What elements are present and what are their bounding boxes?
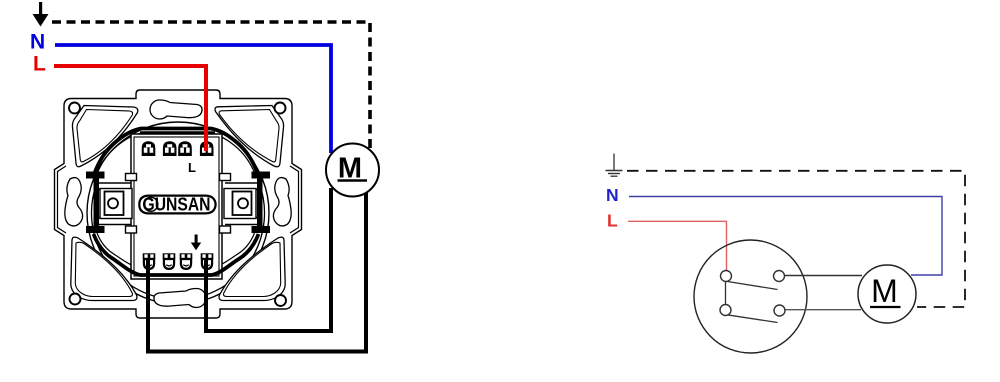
svg-text:L: L	[607, 211, 618, 231]
svg-text:L: L	[188, 160, 196, 175]
svg-text:N: N	[30, 31, 45, 54]
svg-text:M: M	[871, 273, 898, 309]
svg-text:N: N	[606, 185, 619, 205]
svg-text:L: L	[33, 53, 46, 76]
